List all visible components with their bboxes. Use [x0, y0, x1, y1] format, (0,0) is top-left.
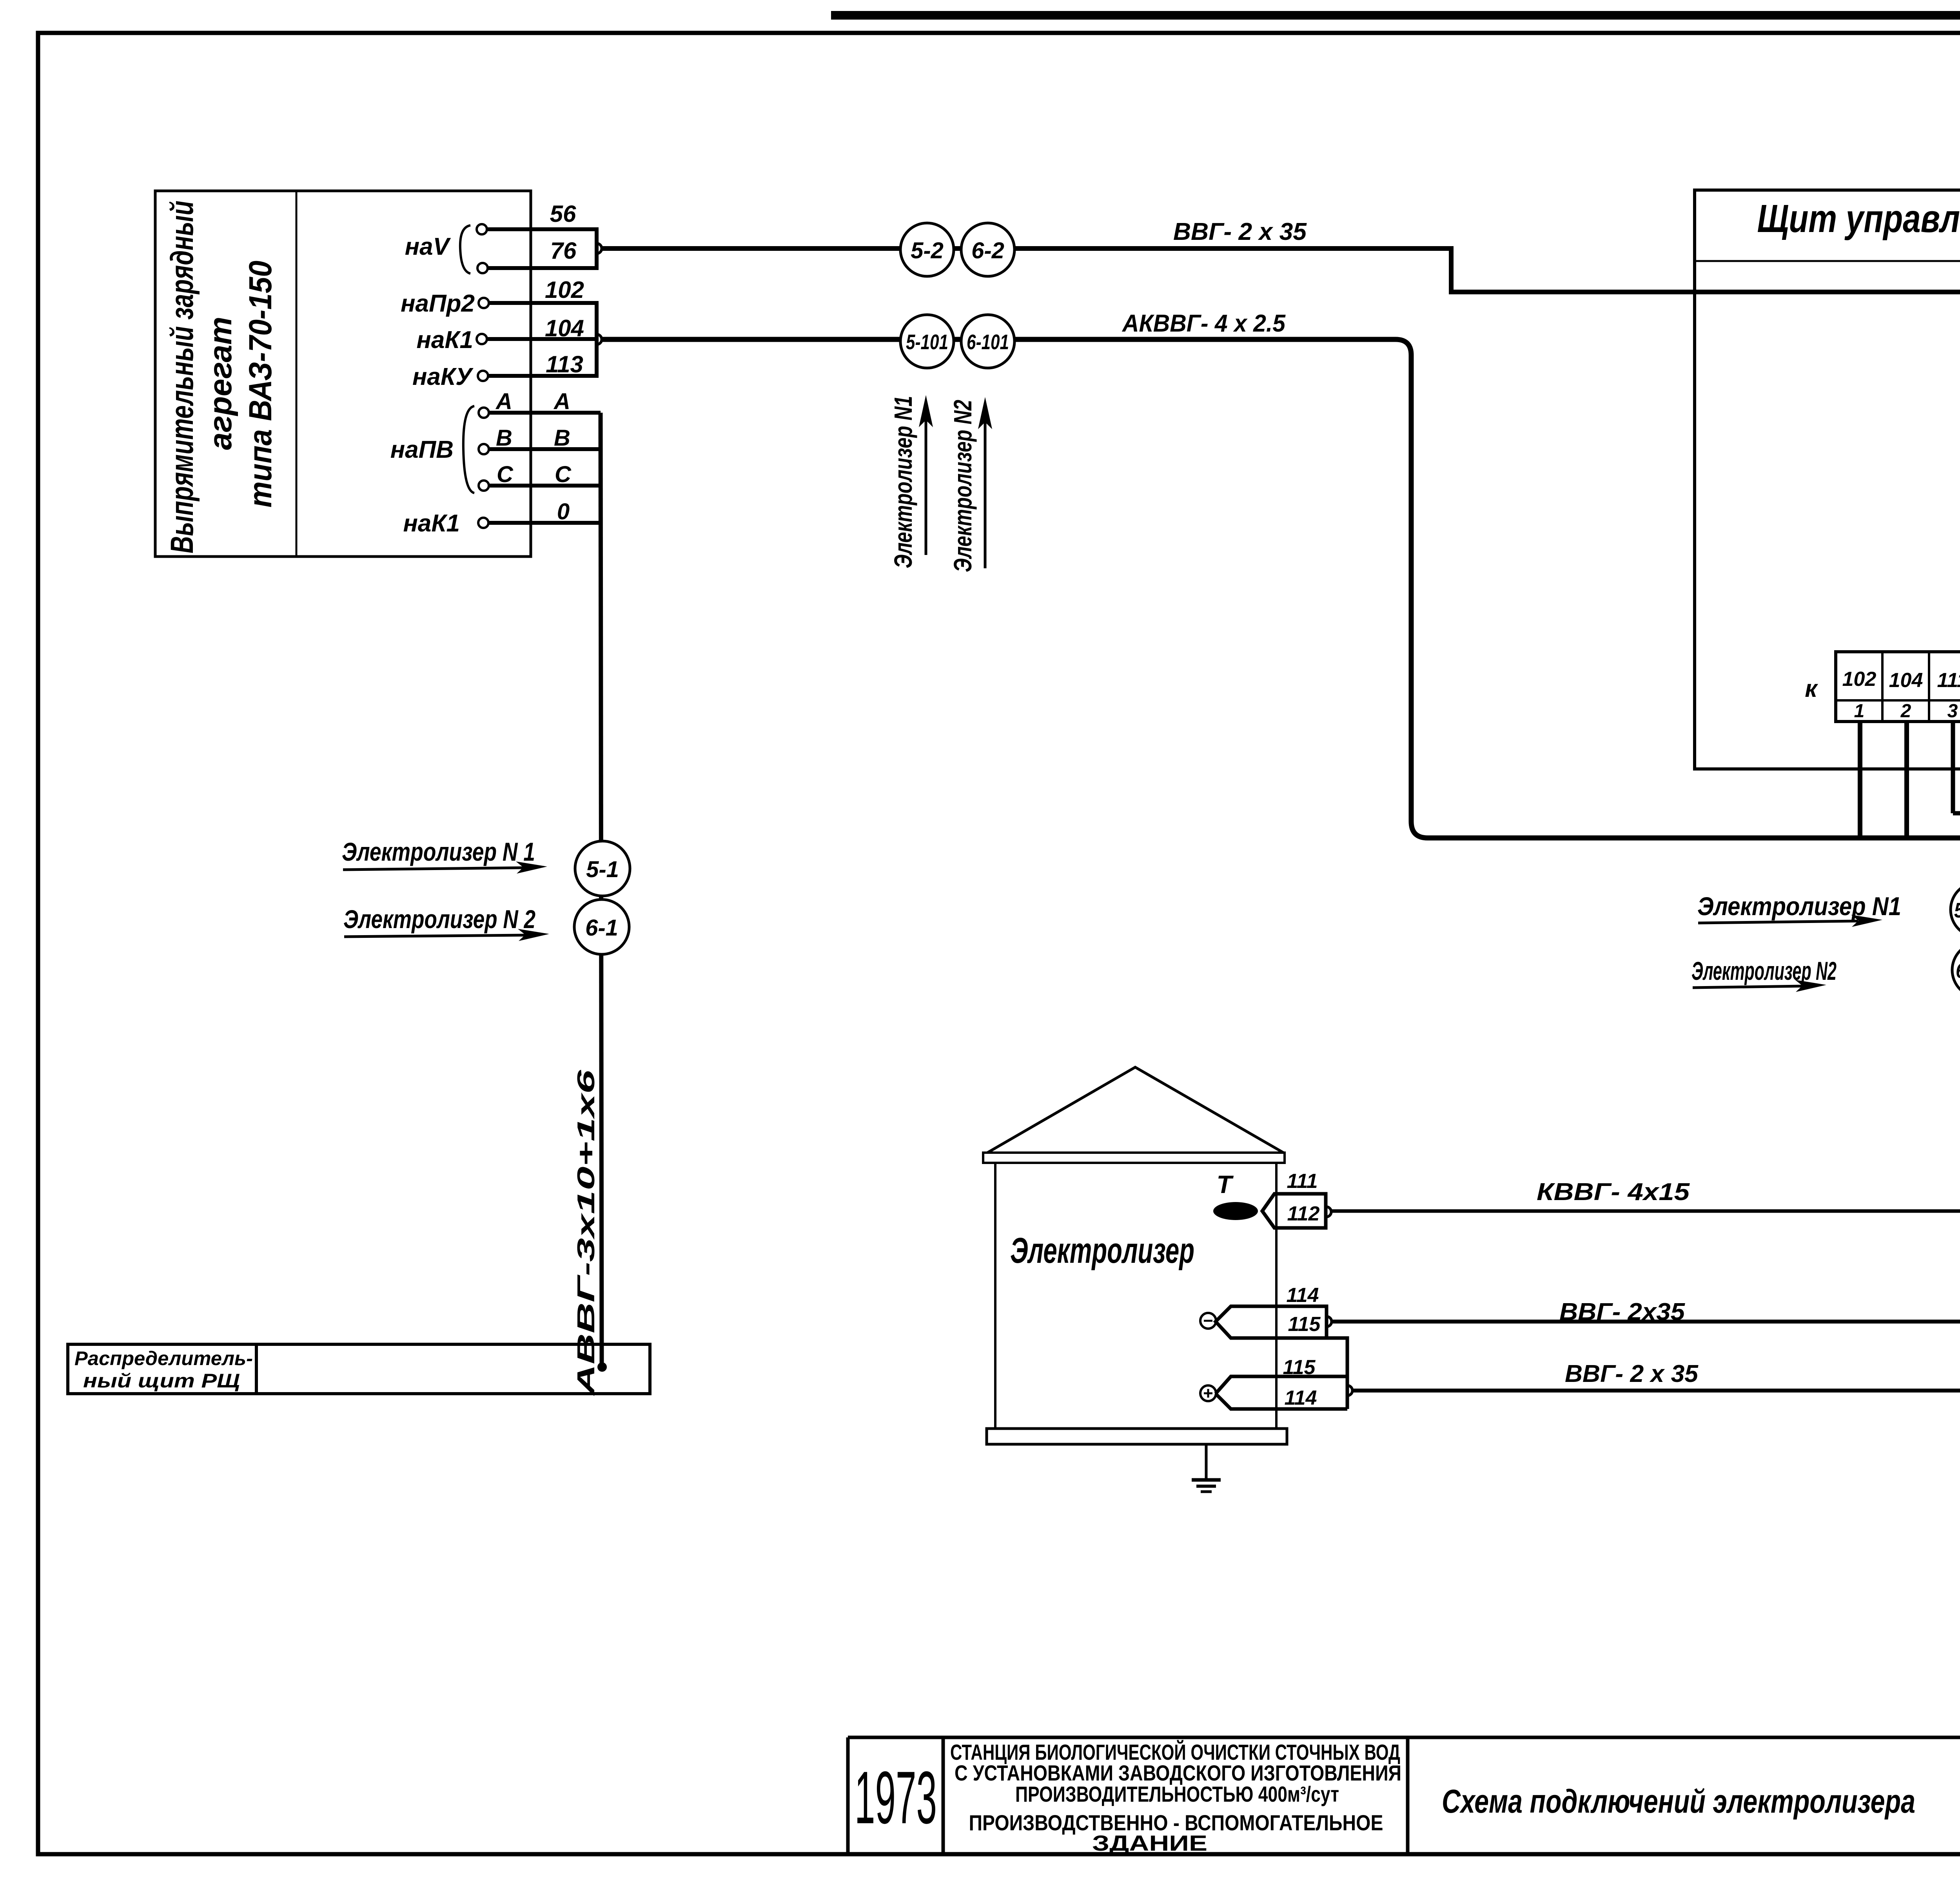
wire 113 — [487, 374, 597, 378]
underline arrow N1 middle — [1698, 921, 1858, 923]
wire ВВГ-2х35 top run — [601, 248, 1960, 346]
plus connector box — [1216, 1376, 1347, 1409]
svg-text:2: 2 — [1900, 701, 1911, 722]
wire A — [488, 411, 601, 415]
svg-text:А: А — [495, 389, 512, 414]
arrow for rotated N1 — [925, 404, 927, 555]
svg-text:Щит управления электролизёро: Щит управления электролизёром — [1757, 197, 1960, 241]
wire 76 — [486, 266, 597, 270]
underline arrow N2 middle — [1693, 986, 1803, 988]
svg-text:В: В — [496, 425, 512, 451]
title block verticals — [848, 1737, 1960, 1854]
svg-text:Электролизер N1: Электролизер N1 — [1697, 892, 1901, 921]
svg-text:5-101: 5-101 — [906, 330, 948, 354]
marker circle 6-101 — [961, 315, 1014, 368]
svg-text:наПр2: наПр2 — [401, 290, 475, 317]
svg-text:агрегат: агрегат — [203, 317, 238, 450]
bundle bar for Пр2/К1/КУ — [595, 301, 599, 378]
plus electrode circle — [1200, 1385, 1216, 1401]
marker circle 5-101 — [900, 315, 954, 368]
svg-text:115: 115 — [1288, 1313, 1321, 1336]
arrow for rotated N2 — [984, 406, 987, 568]
svg-text:ный щит РЩ: ный щит РЩ — [83, 1370, 240, 1392]
terminal strip body — [1836, 652, 1960, 722]
svg-text:6-101: 6-101 — [967, 330, 1009, 354]
distribution board РЩ box — [68, 1344, 650, 1394]
svg-text:Электролизер N 2: Электролизер N 2 — [343, 905, 535, 934]
wire 102 — [488, 301, 597, 305]
svg-text:115: 115 — [1283, 1356, 1316, 1379]
cable end dot — [597, 1362, 607, 1372]
svg-text:ВВГ- 2 х 35: ВВГ- 2 х 35 — [1565, 1360, 1699, 1387]
svg-text:114: 114 — [1287, 1284, 1319, 1307]
svg-text:5-1: 5-1 — [586, 857, 619, 882]
svg-text:112: 112 — [1287, 1202, 1320, 1225]
lower connector nub — [1347, 1385, 1352, 1396]
РЩ divider — [255, 1344, 258, 1394]
svg-text:Электролизер: Электролизер — [1010, 1231, 1194, 1271]
bundle nub наV — [597, 243, 602, 254]
svg-text:ВВГ- 2 х 35: ВВГ- 2 х 35 — [1173, 218, 1307, 245]
tank bottom band — [987, 1429, 1287, 1444]
underline arrow N2 left — [344, 935, 525, 937]
marker circle 6-1 — [574, 899, 629, 954]
svg-text:Т: Т — [1216, 1170, 1234, 1198]
svg-text:наV: наV — [405, 233, 451, 260]
T sensor screw blob — [1213, 1202, 1258, 1220]
underline arrow N1 left — [343, 868, 523, 870]
tank eave band — [983, 1153, 1285, 1163]
svg-text:5-2: 5-2 — [911, 238, 944, 263]
svg-text:С: С — [555, 462, 572, 487]
svg-text:А: А — [553, 389, 570, 414]
wire B — [488, 447, 601, 451]
svg-text:Электролизер N2: Электролизер N2 — [1691, 956, 1837, 985]
panel title separator — [1695, 260, 1960, 262]
svg-text:5-102: 5-102 — [1954, 899, 1960, 922]
terminal labels row — [1842, 668, 1960, 692]
marker circle 5-1 — [575, 841, 630, 896]
wire 56 — [486, 227, 597, 231]
terminal strip row divider — [1836, 699, 1960, 702]
svg-text:102: 102 — [1842, 668, 1877, 691]
ground bars — [1192, 1478, 1221, 1482]
svg-text:наК1: наК1 — [403, 510, 460, 537]
brace for наV — [460, 225, 470, 274]
bundle bar for наV pair — [595, 227, 599, 270]
svg-text:наКУ: наКУ — [412, 363, 474, 390]
marker circle 5-2 — [900, 223, 954, 276]
title block top line — [848, 1736, 1960, 1739]
svg-text:111: 111 — [1287, 1170, 1318, 1193]
minus connector nub — [1327, 1316, 1332, 1327]
wire from terminal 2 — [1904, 722, 1909, 838]
terminal circles — [477, 224, 489, 528]
svg-text:типа ВАЗ-70-150: типа ВАЗ-70-150 — [243, 261, 278, 508]
svg-text:Выпрямительный зарядный: Выпрямительный зарядный — [164, 201, 200, 553]
svg-text:Схема подключений электролиз: Схема подключений электролизера — [1442, 1783, 1915, 1820]
cable АВВГ down to РЩ — [601, 413, 602, 1364]
svg-text:104: 104 — [545, 315, 584, 341]
tank roof — [987, 1067, 1283, 1153]
svg-text:ВВГ- 2х35: ВВГ- 2х35 — [1559, 1298, 1686, 1325]
svg-text:АВВГ-3х10+1х6: АВВГ-3х10+1х6 — [573, 1070, 600, 1396]
svg-text:Электролизер N1: Электролизер N1 — [889, 396, 917, 568]
svg-text:АКВВГ- 4 х 2.5: АКВВГ- 4 х 2.5 — [1122, 310, 1286, 337]
tank right wall — [1275, 1163, 1278, 1429]
minus connector box — [1216, 1306, 1327, 1338]
svg-text:наПВ: наПВ — [390, 436, 454, 463]
wire 0 — [488, 521, 601, 525]
wire C — [488, 484, 601, 488]
scan artifact top band — [831, 11, 1960, 20]
svg-text:3: 3 — [1947, 701, 1958, 722]
rectifier unit block — [155, 191, 531, 557]
marker circle 6-2 — [961, 223, 1014, 276]
svg-text:1: 1 — [1854, 701, 1865, 722]
svg-text:КВВГ- 4х15: КВВГ- 4х15 — [1537, 1179, 1690, 1206]
svg-text:Электролизер N 1: Электролизер N 1 — [342, 837, 535, 866]
control panel box ЩУ — [1695, 190, 1960, 769]
svg-text:наК1: наК1 — [416, 326, 473, 354]
wire from terminal 1 — [1858, 722, 1862, 838]
wire АКВВГ-4х2.5 run — [601, 339, 1960, 838]
wire 6-4 down and left to tank plus — [1352, 1000, 1960, 1391]
ground stem — [1205, 1444, 1208, 1478]
svg-text:113: 113 — [546, 351, 583, 377]
svg-text:76: 76 — [550, 238, 577, 264]
svg-text:ЗДАНИЕ: ЗДАНИЕ — [1092, 1831, 1207, 1855]
terminal strip column dividers — [1882, 652, 1960, 722]
wire 104 — [486, 337, 597, 341]
svg-text:114: 114 — [1285, 1387, 1317, 1409]
bundle nub АКВВГ — [597, 334, 602, 344]
svg-text:к: к — [1805, 675, 1818, 702]
svg-text:6-102: 6-102 — [1956, 959, 1960, 983]
svg-text:ПРОИЗВОДИТЕЛЬНОСТЬЮ 400м³/сут: ПРОИЗВОДИТЕЛЬНОСТЬЮ 400м³/сут — [1015, 1782, 1339, 1806]
svg-text:6-2: 6-2 — [971, 238, 1004, 263]
svg-text:0: 0 — [557, 499, 570, 524]
marker circle 6-102 — [1952, 943, 1960, 997]
svg-text:104: 104 — [1889, 669, 1923, 692]
wires from terminals 3,4 joined — [1953, 722, 1960, 813]
T connector nub — [1326, 1207, 1331, 1217]
svg-text:1973: 1973 — [855, 1756, 937, 1839]
T connector box — [1262, 1194, 1326, 1228]
rectifier block divider — [296, 191, 298, 557]
marker circle 5-102 — [1951, 882, 1960, 937]
minus electrode circle — [1200, 1313, 1216, 1329]
svg-text:В: В — [554, 425, 570, 451]
svg-text:Распределитель-: Распределитель- — [74, 1347, 253, 1369]
wire 6-3 down and left to tank minus — [1332, 999, 1960, 1322]
step to lower connector — [1327, 1338, 1347, 1409]
svg-text:111: 111 — [1937, 669, 1960, 692]
wire 6-102 down and left to tank T — [1331, 997, 1960, 1211]
svg-text:102: 102 — [545, 277, 584, 303]
svg-text:56: 56 — [550, 201, 576, 227]
terminal numbers row — [1854, 701, 1960, 722]
tank left wall — [994, 1163, 996, 1429]
svg-text:Электролизер N2: Электролизер N2 — [949, 400, 977, 572]
brace for наПВ — [463, 406, 474, 493]
svg-text:С: С — [497, 462, 514, 487]
svg-text:6-1: 6-1 — [585, 915, 618, 941]
